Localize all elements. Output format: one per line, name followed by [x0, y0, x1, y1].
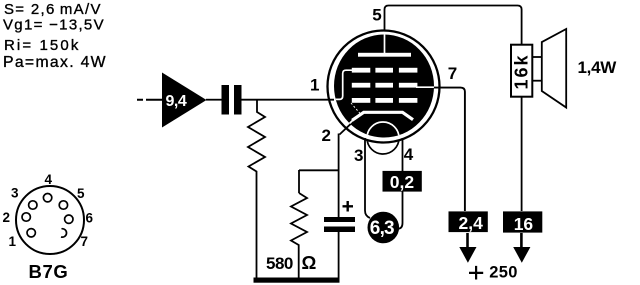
svg-text:250: 250 — [489, 263, 517, 281]
svg-text:5: 5 — [372, 5, 381, 24]
svg-text:1: 1 — [310, 76, 319, 95]
svg-text:6,3: 6,3 — [370, 218, 394, 239]
svg-text:Pa=max. 4W: Pa=max. 4W — [3, 54, 107, 71]
svg-text:6: 6 — [86, 211, 94, 226]
svg-text:4: 4 — [45, 172, 53, 187]
svg-text:Ω: Ω — [302, 252, 317, 273]
svg-text:7: 7 — [81, 234, 89, 249]
svg-text:0,2: 0,2 — [390, 172, 415, 192]
svg-text:3: 3 — [11, 186, 19, 201]
svg-text:2: 2 — [3, 210, 11, 225]
svg-text:Vg1= −13,5V: Vg1= −13,5V — [3, 17, 105, 34]
svg-text:9,4: 9,4 — [166, 93, 187, 110]
svg-text:1: 1 — [9, 234, 17, 249]
svg-text:580: 580 — [266, 254, 293, 273]
svg-text:2,4: 2,4 — [459, 213, 484, 233]
svg-text:2: 2 — [322, 126, 331, 145]
svg-text:5: 5 — [77, 186, 85, 201]
svg-text:3: 3 — [354, 146, 363, 165]
svg-text:1,4W: 1,4W — [578, 58, 618, 77]
svg-text:16k: 16k — [512, 53, 532, 89]
svg-text:B7G: B7G — [29, 261, 69, 282]
svg-text:Ri= 150k: Ri= 150k — [4, 37, 80, 54]
svg-text:4: 4 — [404, 145, 414, 164]
svg-text:16: 16 — [514, 214, 534, 234]
svg-text:7: 7 — [448, 64, 457, 83]
